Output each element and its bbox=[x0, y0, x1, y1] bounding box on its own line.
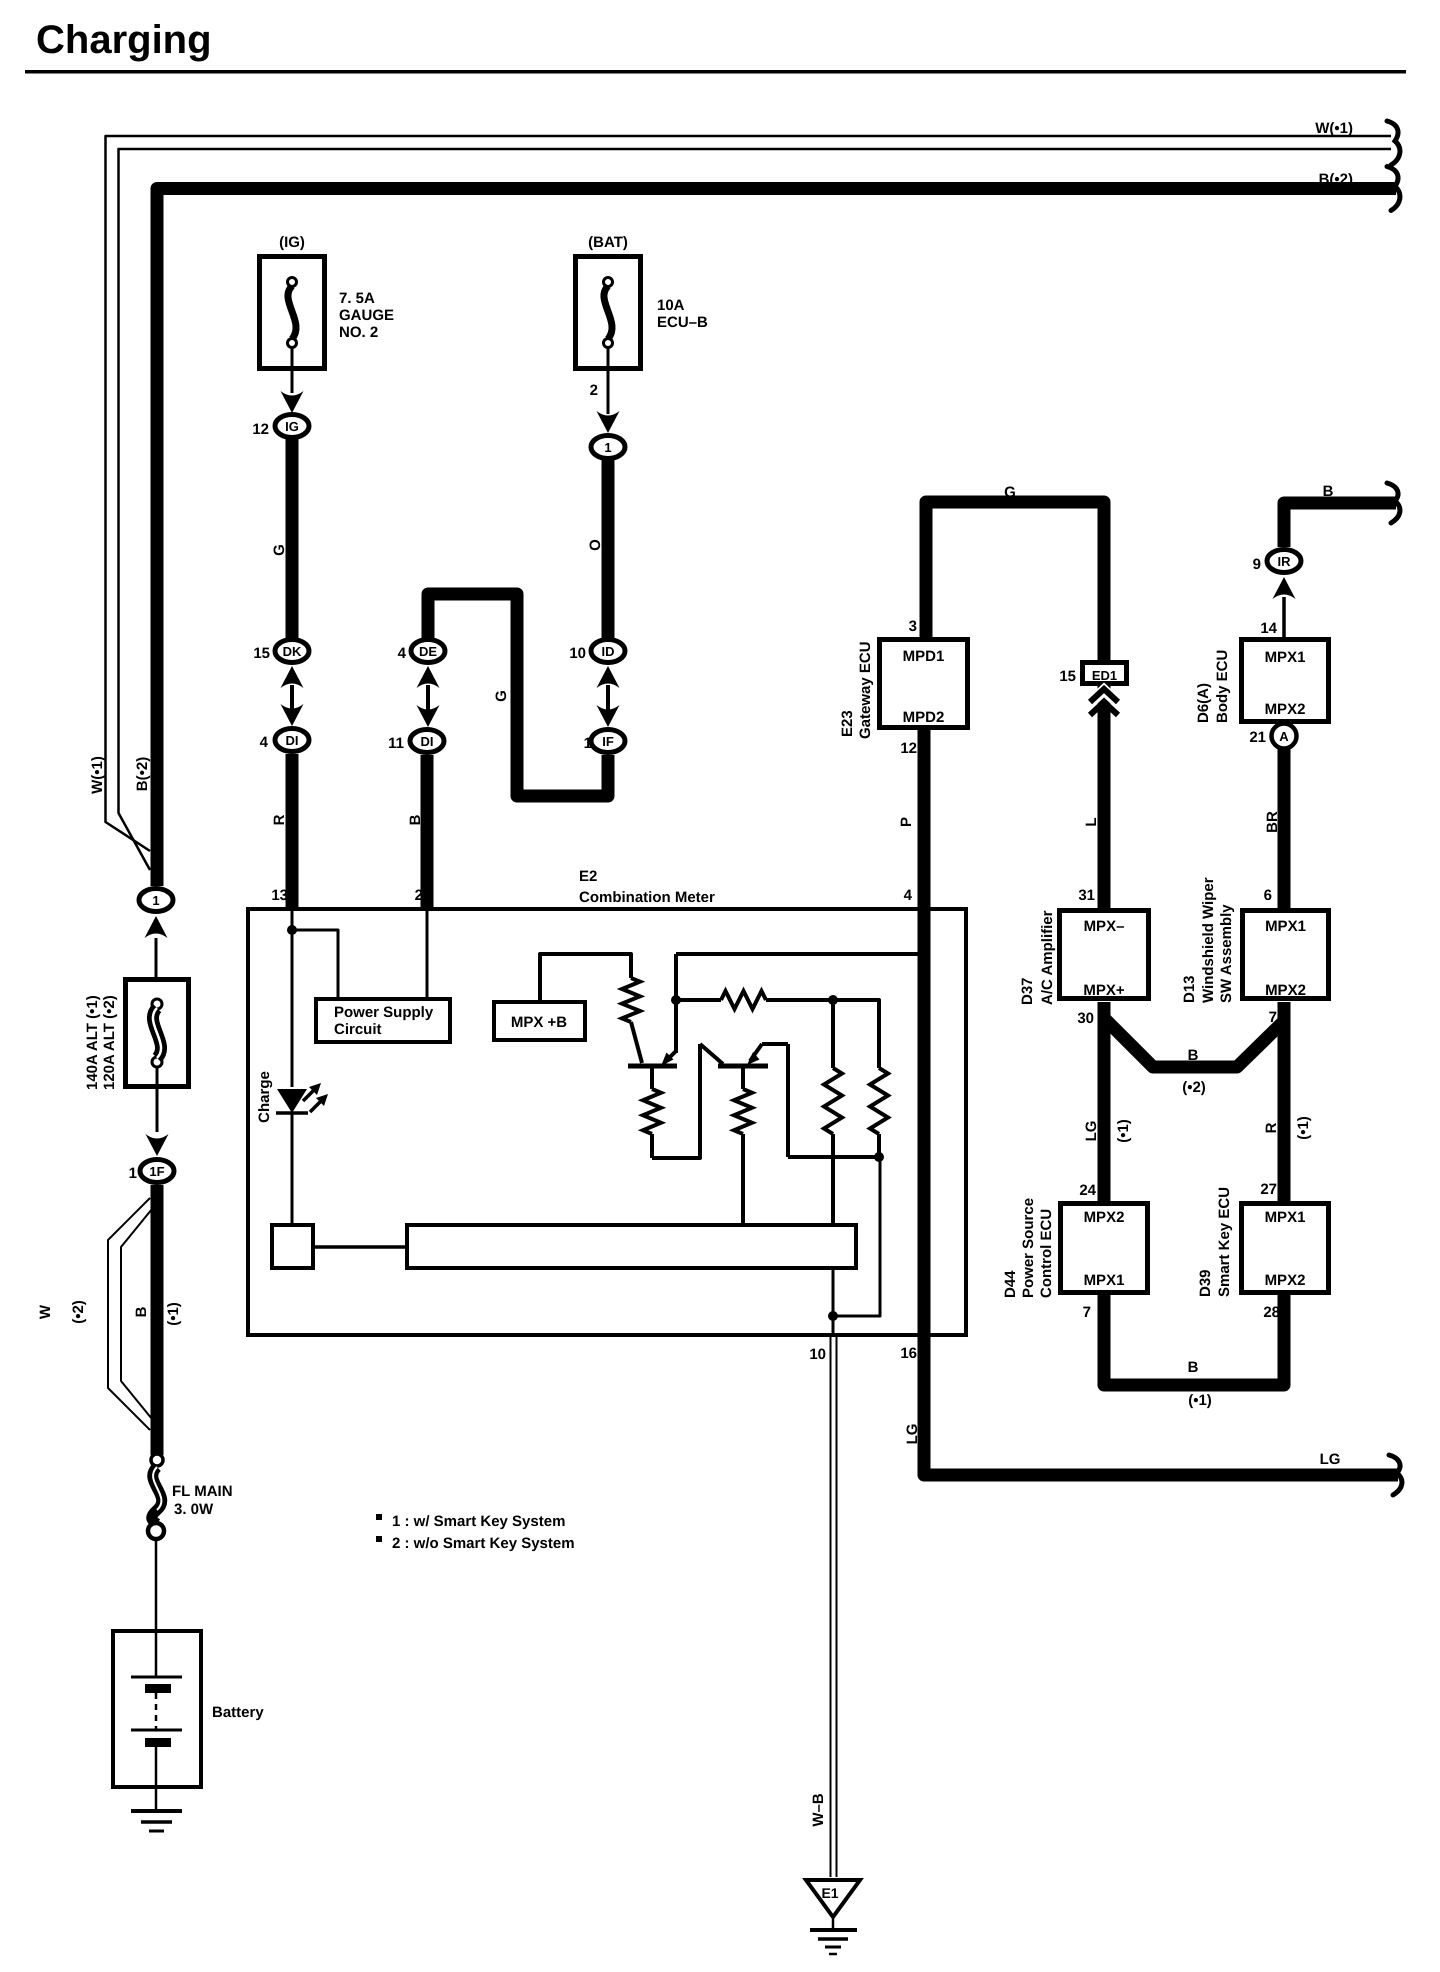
svg-text:MPD1: MPD1 bbox=[903, 648, 945, 665]
svg-text:2 : w/o Smart Key System: 2 : w/o Smart Key System bbox=[392, 1535, 575, 1552]
svg-text:7: 7 bbox=[1269, 1009, 1277, 1026]
svg-text:L: L bbox=[1083, 817, 1100, 826]
svg-text:Charge: Charge bbox=[256, 1071, 273, 1123]
svg-text:27: 27 bbox=[1260, 1181, 1277, 1198]
svg-text:DI: DI bbox=[421, 734, 434, 749]
svg-text:24: 24 bbox=[1079, 1182, 1096, 1199]
svg-text:(•2): (•2) bbox=[1182, 1079, 1206, 1096]
svg-text:1F: 1F bbox=[149, 1164, 164, 1179]
svg-text:MPX1: MPX1 bbox=[1084, 1272, 1125, 1289]
svg-text:IG: IG bbox=[285, 419, 299, 434]
svg-text:D44: D44 bbox=[1002, 1270, 1019, 1298]
svg-text:Body ECU: Body ECU bbox=[1214, 650, 1231, 723]
svg-text:B: B bbox=[1323, 483, 1334, 500]
svg-text:1: 1 bbox=[152, 893, 159, 908]
svg-text:MPD2: MPD2 bbox=[903, 709, 945, 726]
svg-text:MPX2: MPX2 bbox=[1265, 982, 1306, 999]
svg-text:12: 12 bbox=[252, 421, 269, 438]
svg-text:LG: LG bbox=[904, 1424, 921, 1445]
svg-text:ECU–B: ECU–B bbox=[657, 314, 708, 331]
svg-text:13: 13 bbox=[271, 887, 288, 904]
svg-text:4: 4 bbox=[260, 734, 269, 751]
svg-text:D37: D37 bbox=[1019, 977, 1036, 1005]
svg-text:1: 1 bbox=[129, 1165, 137, 1182]
svg-text:3: 3 bbox=[909, 618, 917, 635]
svg-text:E2: E2 bbox=[579, 868, 597, 885]
svg-text:Charging: Charging bbox=[36, 18, 212, 62]
svg-text:FL MAIN: FL MAIN bbox=[172, 1483, 233, 1500]
svg-text:P: P bbox=[898, 817, 915, 827]
svg-text:Power Supply: Power Supply bbox=[334, 1004, 434, 1021]
svg-text:12: 12 bbox=[900, 740, 917, 757]
svg-text:(•1): (•1) bbox=[165, 1302, 182, 1326]
svg-text:2: 2 bbox=[590, 382, 598, 399]
svg-text:G: G bbox=[271, 544, 288, 556]
svg-text:SW Assembly: SW Assembly bbox=[1218, 904, 1235, 1003]
svg-text:(•1): (•1) bbox=[1188, 1392, 1212, 1409]
svg-text:140A ALT (•1): 140A ALT (•1) bbox=[84, 995, 101, 1090]
svg-text:7. 5A: 7. 5A bbox=[339, 290, 375, 307]
svg-text:D39: D39 bbox=[1197, 1269, 1214, 1297]
svg-text:W–B: W–B bbox=[810, 1793, 827, 1827]
svg-text:10A: 10A bbox=[657, 297, 685, 314]
svg-text:120A ALT (•2): 120A ALT (•2) bbox=[101, 995, 118, 1090]
svg-text:Control ECU: Control ECU bbox=[1038, 1209, 1055, 1298]
svg-text:ED1: ED1 bbox=[1092, 668, 1117, 683]
svg-text:3. 0W: 3. 0W bbox=[174, 1501, 214, 1518]
svg-text:MPX2: MPX2 bbox=[1084, 1209, 1125, 1226]
svg-text:A: A bbox=[1279, 729, 1289, 744]
svg-text:(•2): (•2) bbox=[70, 1300, 87, 1324]
svg-text:1: 1 bbox=[584, 735, 592, 752]
svg-text:Gateway ECU: Gateway ECU bbox=[857, 641, 874, 739]
svg-text:(IG): (IG) bbox=[279, 234, 305, 251]
svg-text:IR: IR bbox=[1278, 554, 1292, 569]
svg-text:2: 2 bbox=[415, 887, 423, 904]
svg-text:MPX1: MPX1 bbox=[1265, 918, 1306, 935]
svg-text:LG: LG bbox=[1320, 1451, 1341, 1468]
svg-text:GAUGE: GAUGE bbox=[339, 307, 394, 324]
svg-text:MPX1: MPX1 bbox=[1265, 649, 1306, 666]
svg-text:B(•2): B(•2) bbox=[134, 757, 151, 791]
svg-text:W: W bbox=[37, 1304, 54, 1319]
svg-text:6: 6 bbox=[1264, 887, 1272, 904]
svg-text:1: 1 bbox=[604, 440, 611, 455]
svg-text:R: R bbox=[1263, 1122, 1280, 1133]
svg-text:G: G bbox=[1004, 484, 1016, 501]
svg-text:B: B bbox=[1188, 1359, 1199, 1376]
svg-text:BR: BR bbox=[1264, 811, 1281, 833]
svg-text:A/C Amplifier: A/C Amplifier bbox=[1039, 910, 1056, 1005]
svg-text:15: 15 bbox=[1059, 668, 1076, 685]
svg-text:9: 9 bbox=[1253, 556, 1261, 573]
svg-text:MPX1: MPX1 bbox=[1265, 1209, 1306, 1226]
svg-text:21: 21 bbox=[1249, 729, 1266, 746]
svg-text:1 : w/ Smart Key System: 1 : w/ Smart Key System bbox=[392, 1513, 565, 1530]
svg-text:10: 10 bbox=[809, 1346, 826, 1363]
svg-text:16: 16 bbox=[900, 1345, 917, 1362]
svg-text:NO. 2: NO. 2 bbox=[339, 324, 378, 341]
svg-text:D13: D13 bbox=[1181, 975, 1198, 1003]
svg-text:R: R bbox=[271, 814, 288, 825]
svg-text:E23: E23 bbox=[839, 710, 856, 737]
svg-text:MPX–: MPX– bbox=[1084, 918, 1125, 935]
svg-text:(•1): (•1) bbox=[1295, 1116, 1312, 1140]
svg-text:MPX +B: MPX +B bbox=[511, 1014, 567, 1031]
svg-text:7: 7 bbox=[1083, 1304, 1091, 1321]
svg-text:Combination Meter: Combination Meter bbox=[579, 889, 715, 906]
svg-text:14: 14 bbox=[1260, 620, 1277, 637]
svg-text:DK: DK bbox=[283, 644, 302, 659]
svg-text:MPX2: MPX2 bbox=[1265, 701, 1306, 718]
svg-text:W(•1): W(•1) bbox=[1315, 120, 1353, 137]
svg-text:MPX2: MPX2 bbox=[1265, 1272, 1306, 1289]
svg-text:Battery: Battery bbox=[212, 1704, 264, 1721]
svg-text:O: O bbox=[587, 539, 604, 551]
svg-text:E1: E1 bbox=[821, 1885, 838, 1901]
svg-text:Smart Key ECU: Smart Key ECU bbox=[1216, 1187, 1233, 1297]
svg-text:D6(A): D6(A) bbox=[1195, 683, 1212, 723]
svg-text:15: 15 bbox=[253, 645, 270, 662]
svg-text:G: G bbox=[493, 690, 510, 702]
svg-text:W(•1): W(•1) bbox=[89, 756, 106, 794]
svg-text:IF: IF bbox=[602, 734, 614, 749]
svg-text:MPX+: MPX+ bbox=[1083, 982, 1125, 999]
svg-text:11: 11 bbox=[388, 735, 404, 752]
svg-text:28: 28 bbox=[1263, 1304, 1280, 1321]
svg-text:B: B bbox=[133, 1306, 150, 1317]
svg-text:10: 10 bbox=[569, 645, 586, 662]
svg-text:DE: DE bbox=[419, 644, 437, 659]
svg-text:B: B bbox=[1188, 1047, 1199, 1064]
svg-text:31: 31 bbox=[1078, 887, 1095, 904]
svg-text:Windshield Wiper: Windshield Wiper bbox=[1200, 877, 1217, 1003]
svg-text:ID: ID bbox=[602, 644, 615, 659]
svg-text:4: 4 bbox=[904, 887, 913, 904]
svg-text:(BAT): (BAT) bbox=[588, 234, 628, 251]
svg-text:DI: DI bbox=[286, 733, 299, 748]
svg-text:Power Source: Power Source bbox=[1020, 1198, 1037, 1298]
svg-text:Circuit: Circuit bbox=[334, 1021, 382, 1038]
svg-text:B(•2): B(•2) bbox=[1319, 171, 1353, 188]
svg-text:LG: LG bbox=[1083, 1121, 1100, 1142]
svg-text:(•1): (•1) bbox=[1115, 1119, 1132, 1143]
svg-text:30: 30 bbox=[1077, 1010, 1094, 1027]
svg-text:4: 4 bbox=[398, 645, 407, 662]
svg-text:B: B bbox=[407, 814, 424, 825]
